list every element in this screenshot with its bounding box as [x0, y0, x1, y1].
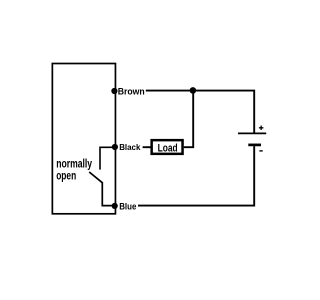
node Blue terminal [112, 203, 118, 209]
wire Blue lead: to battery - [138, 146, 254, 206]
battery BT1 negative plate [248, 144, 261, 147]
node Black terminal [112, 144, 118, 150]
svg-text:Load: Load [158, 142, 178, 154]
label - (battery negative) [259, 150, 262, 152]
svg-text:open: open [56, 169, 76, 183]
wire branch: brown node down to load [184, 91, 193, 148]
battery BT1 positive plate [238, 132, 266, 134]
switch S1 blade, normally open (to Blue terminal) [89, 172, 115, 206]
svg-text:Black: Black [119, 142, 140, 152]
switch S1 fixed contact (to Black terminal) [100, 147, 115, 169]
svg-text:Brown: Brown [118, 86, 145, 96]
wire Black lead: to load [143, 146, 151, 148]
sensor body enclosure [52, 64, 115, 214]
label + (battery positive) [259, 126, 264, 131]
wire Brown lead: to battery + [146, 91, 254, 133]
svg-text:Blue: Blue [119, 201, 136, 211]
node Brown terminal [111, 88, 117, 94]
node junction on brown wire [190, 87, 197, 94]
load LD1 box [152, 140, 183, 154]
